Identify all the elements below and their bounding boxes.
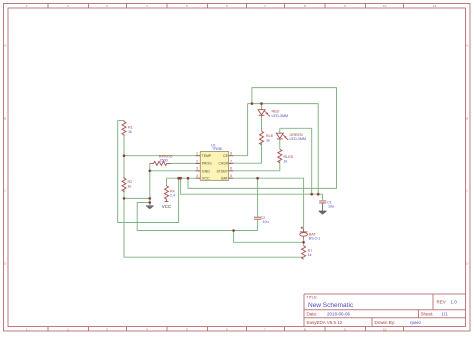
resistor RPROG [150,154,173,165]
svg-text:R7: R7 [308,249,313,253]
wire red LED rail [248,104,319,195]
wire VCC node to top rail loop [188,88,337,189]
wire RPROG right to PROG pin2 [171,162,200,164]
junction node GND pin [149,170,152,173]
svg-text:GND: GND [202,168,210,173]
wire R2 node to ground stub [124,197,150,199]
wire C2 hang [257,178,259,230]
svg-text:B: B [4,117,6,121]
resistor R1 [122,121,133,137]
svg-text:BAT: BAT [221,176,228,181]
pin 1 [196,152,201,156]
svg-text:A: A [4,44,6,48]
svg-text:Date:: Date: [307,312,318,317]
svg-text:3: 3 [196,167,198,171]
svg-text:CHGR: CHGR [219,161,229,166]
LED GREEN [276,133,306,141]
LED RED [258,110,288,118]
svg-text:10u: 10u [263,220,269,224]
svg-text:STDBY: STDBY [217,168,229,173]
svg-text:A: A [466,44,468,48]
resistor RLE [260,131,274,144]
wire green LED chain to STDBY pin6 [229,128,280,171]
svg-text:7: 7 [230,159,232,163]
wire R4 top lead [166,178,168,186]
svg-text:Drawn By:: Drawn By: [375,320,396,325]
svg-text:6: 6 [230,167,232,171]
svg-text:B: B [466,117,468,121]
svg-text:10: 10 [383,4,387,8]
svg-text:REV: REV [437,300,446,305]
wire R1 bottom to TEMP node [123,136,125,179]
svg-text:New Schematic: New Schematic [308,302,354,309]
svg-text:1k: 1k [266,139,270,143]
svg-text:LED-3MM: LED-3MM [290,137,307,141]
svg-text:8: 8 [230,152,232,156]
junction node red rail bottom [317,193,320,196]
wire C2 rail to battery bottom [234,231,304,243]
svg-text:Sheet:: Sheet: [421,312,434,317]
junction node VCC b [179,177,182,180]
svg-text:TP4056: TP4056 [212,147,222,151]
svg-text:1k: 1k [284,159,288,163]
svg-text:1k: 1k [128,184,132,188]
svg-text:1k: 1k [128,130,132,134]
pin 7 [229,159,234,163]
wire R1 top corner [118,120,124,122]
VCC flag [162,202,171,210]
pin 3 [196,167,201,171]
svg-text:RLE: RLE [266,134,274,138]
pin 8 [229,152,234,156]
svg-text:R1: R1 [128,126,133,130]
wire BAT pin5 to battery [229,178,304,229]
svg-text:4: 4 [196,174,198,178]
wire GND pin3 [150,170,201,172]
wire VCC pin4 [167,177,201,179]
svg-text:rpaez: rpaez [410,320,422,325]
ground (left) [146,205,154,209]
svg-text:10: 10 [383,328,387,332]
svg-text:R4: R4 [170,189,175,193]
wire left rail VCC loop [118,121,179,223]
wire battery bottom to R7 [303,239,305,258]
junction node BAT/C2 [256,177,259,180]
wire TEMP pin1 to left rail [124,155,201,157]
title block [304,294,466,327]
svg-text:2018-06-06: 2018-06-06 [327,312,351,317]
wire red LED chain to CHGR pin7 [229,104,262,164]
junction node TEMP/R1 [123,154,126,157]
svg-text:TITLE:: TITLE: [307,296,318,300]
wire VCC node to C1 rail [181,178,323,200]
svg-text:5: 5 [230,174,232,178]
wire green LED rail [280,128,312,194]
svg-text:BS-2-1: BS-2-1 [309,237,320,241]
ground (C1) [319,203,327,215]
svg-text:GREEN: GREEN [290,133,303,137]
wire ground stub to C2 bottom rail [137,203,257,231]
resistor R2 [122,177,132,192]
junction node green rail bottom [310,193,313,196]
pin 4 [196,174,201,178]
junction node top rail left [251,102,254,105]
svg-text:11: 11 [433,4,436,8]
pin 2 [196,159,201,163]
svg-text:LED-3MM: LED-3MM [272,114,289,118]
svg-text:R2: R2 [128,180,133,184]
resistor RLED [278,149,294,163]
svg-text:2.4: 2.4 [170,194,175,198]
junction node ground stub lower [149,201,152,204]
svg-text:1: 1 [196,152,198,156]
resistor R4 [165,186,176,202]
battery BAT BS-2-1 [300,227,321,241]
svg-text:RED: RED [272,110,280,114]
capacitor C1 [319,200,334,208]
svg-text:TEMP: TEMP [202,153,212,158]
svg-text:EasyEDA V5.5.12: EasyEDA V5.5.12 [307,320,343,325]
svg-text:1k: 1k [308,253,312,257]
svg-text:2: 2 [196,159,198,163]
svg-text:1/1: 1/1 [442,312,449,317]
pin 5 [229,174,234,178]
junction node VCC a [177,177,180,180]
svg-text:10u: 10u [328,205,334,209]
wire R2 bottom down to R7 bottom line [124,190,304,258]
svg-text:RLED: RLED [284,155,294,159]
junction node ground stub upper [149,197,152,200]
pin 6 [229,167,234,171]
capacitor C2 [254,216,269,224]
wire RPROG left to ground [149,163,151,205]
svg-text:PROG: PROG [202,161,212,166]
svg-text:VCC: VCC [202,176,210,181]
junction node VCC c [187,177,190,180]
svg-text:CE: CE [223,153,228,158]
svg-text:VCC: VCC [162,204,171,209]
op-amp U1 TP4056 [200,143,228,180]
junction node battery bottom [302,241,305,244]
junction node R2 bottom [123,197,126,200]
junction node C2 rail [232,229,235,232]
wire CE pin8 up [229,104,248,156]
svg-text:1500: 1500 [160,158,168,162]
svg-text:1.0: 1.0 [451,300,458,305]
junction node red LED top [260,102,263,105]
resistor R7 [302,246,313,259]
